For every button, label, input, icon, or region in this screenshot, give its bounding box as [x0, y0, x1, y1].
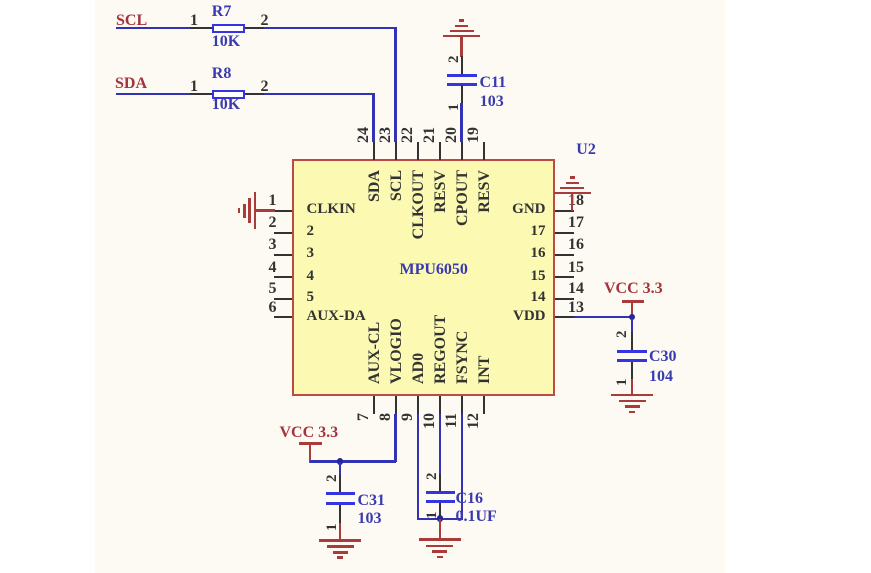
- pin name 17: [531, 224, 546, 239]
- pin number 2 of C31: [325, 475, 340, 483]
- wire SDA to R8 pin 1: [116, 93, 190, 95]
- pin number 6: [268, 300, 277, 316]
- pin 15 stub (right): [555, 276, 574, 278]
- ground below C31: [319, 539, 361, 542]
- pin name CPOUT: [455, 170, 471, 226]
- pin name 16: [531, 246, 546, 261]
- pin name 4: [307, 269, 315, 284]
- pin name VLOGIO: [389, 319, 405, 385]
- pin number 17: [568, 215, 584, 231]
- part name MPU6050: [400, 262, 468, 278]
- resistor R7 pin 2 lead: [245, 27, 264, 29]
- pin 19 stub (top): [483, 142, 485, 160]
- pin name SCL: [389, 170, 405, 201]
- pin 24 stub (top): [373, 142, 375, 160]
- capacitor C16: [426, 491, 455, 494]
- pin number 1 of R8: [190, 79, 198, 95]
- pin 11 stub (bottom): [461, 396, 463, 415]
- pin number 11: [444, 413, 460, 428]
- wire U2 pin 11 down: [461, 414, 463, 520]
- pin number 21: [422, 127, 438, 143]
- designator C16: [456, 491, 484, 507]
- pin 20 stub (top): [461, 142, 463, 160]
- pin number 1 of C16: [425, 512, 440, 520]
- pin name 14: [531, 290, 546, 305]
- capacitor C31: [326, 492, 355, 495]
- pin number 12: [466, 413, 482, 429]
- pin 13 stub (right): [555, 316, 574, 318]
- capacitor C16 pin 2 lead: [439, 474, 441, 492]
- pin name AUX-DA: [307, 309, 366, 324]
- pin number 23: [378, 127, 394, 143]
- wire R7 pin 2 to corner: [264, 27, 397, 29]
- capacitor C11 pin 1 lead: [461, 85, 463, 103]
- designator C31: [358, 493, 386, 509]
- wire C16 junction to ground: [439, 519, 441, 539]
- value 104 of C30: [649, 369, 673, 385]
- pin name AUX-CL: [367, 322, 383, 384]
- wire junction to C31 pin 2: [339, 462, 341, 477]
- pin number 20: [444, 127, 460, 143]
- wire down to U2 pin 24: [372, 93, 374, 142]
- pin 7 stub (bottom): [373, 396, 375, 415]
- pin number 19: [466, 127, 482, 143]
- capacitor C30: [617, 350, 647, 353]
- pin number 1 of C11: [447, 103, 462, 111]
- pin name 2: [307, 224, 315, 239]
- wire SCL to R7 pin 1: [116, 27, 190, 29]
- pin name FSYNC: [455, 331, 471, 384]
- pin name SDA: [367, 170, 383, 202]
- pin number 1 of C31: [325, 524, 340, 532]
- pin 10 stub (bottom): [439, 396, 441, 415]
- value 0.1UF of C16: [456, 509, 497, 525]
- node junction at C30: [629, 314, 636, 321]
- pin number 13: [568, 300, 584, 316]
- wire U2 pin 10 to C16 pin 2: [439, 414, 441, 474]
- pin 5 stub (left): [274, 298, 292, 300]
- pin number 3: [268, 237, 277, 253]
- ground (inverted) at U2 pin 18: [554, 192, 591, 195]
- pin number 2 of C30: [615, 331, 630, 339]
- capacitor C30 pin 2 lead: [631, 332, 633, 350]
- op-amp U2 MPU6050 chip body: [292, 159, 555, 396]
- wire ground to pin 18: [571, 194, 573, 211]
- pin 4 stub (left): [274, 276, 292, 278]
- ground below C16: [419, 538, 461, 541]
- pin 21 stub (top): [439, 142, 441, 160]
- pin 6 stub (left): [274, 316, 292, 318]
- resistor R8 pin 2 lead: [245, 93, 264, 95]
- capacitor C31 pin 1 lead: [339, 505, 341, 523]
- pin number 1 of R7: [190, 13, 198, 29]
- pin name GND: [512, 202, 545, 217]
- pin 3 stub (left): [274, 254, 292, 256]
- wire ground to C11 pin 2: [460, 37, 462, 57]
- resistor R7: [212, 24, 245, 33]
- pin 12 stub (bottom): [483, 396, 485, 415]
- capacitor C11 pin 2 lead: [461, 56, 463, 75]
- resistor R7 pin 1 lead: [190, 27, 213, 29]
- pin number 1: [268, 193, 277, 209]
- pin number 5: [268, 281, 277, 297]
- wire R8 pin 2 to corner: [264, 93, 375, 95]
- resistor R8 pin 1 lead: [190, 93, 213, 95]
- pin 17 stub (right): [555, 232, 574, 234]
- wire bottom node: [417, 518, 463, 520]
- pin name INT: [477, 356, 493, 384]
- wire junction to C30 pin 2: [631, 318, 633, 333]
- wire down to U2 pin 23: [394, 27, 396, 142]
- designator R7: [212, 4, 232, 20]
- pin number 14: [568, 281, 584, 297]
- pin 22 stub (top): [417, 142, 419, 160]
- sheet background: [95, 0, 725, 573]
- wire U2 pin 9 down: [417, 414, 419, 520]
- pin number 2: [268, 215, 277, 231]
- pin name RESV: [477, 170, 493, 213]
- wire VCC to U2 pin 8: [310, 460, 397, 462]
- pin number 22: [400, 127, 416, 143]
- ground below C30: [611, 394, 653, 397]
- node junction at C31: [337, 458, 344, 465]
- pin number 2 of C16: [425, 473, 440, 481]
- wire C11 pin 1 to U2 pin 20: [460, 103, 462, 141]
- pin name AD0: [411, 353, 427, 384]
- capacitor C30 pin 1 lead: [631, 362, 633, 379]
- wire up to pin 8: [394, 414, 396, 462]
- pin name RESV: [433, 170, 449, 213]
- power VCC 3.3 (bottom): [280, 425, 339, 441]
- pin 9 stub (bottom): [417, 396, 419, 415]
- net label SCL: [116, 13, 147, 29]
- value 103 of C11: [480, 94, 504, 110]
- pin 18 stub (right): [555, 210, 574, 212]
- designator C30: [649, 349, 677, 365]
- wire ground to pin 1: [255, 209, 275, 211]
- pin number 18: [568, 193, 584, 209]
- pin 8 stub (bottom): [395, 396, 397, 415]
- pin number 24: [356, 127, 372, 143]
- pin 1 stub (left): [274, 210, 292, 212]
- pin 2 stub (left): [274, 232, 292, 234]
- ground (inverted) above C11: [443, 35, 480, 38]
- pin number 8: [378, 413, 394, 421]
- net label SDA: [115, 76, 147, 92]
- pin number 2 of C11: [447, 55, 462, 63]
- power VCC 3.3 (right): [604, 281, 663, 297]
- pin number 10: [422, 413, 438, 429]
- pin name CLKOUT: [411, 170, 427, 239]
- capacitor C11: [447, 74, 477, 77]
- pin number 2 of R7: [261, 13, 269, 29]
- capacitor C16 pin 1 lead: [439, 503, 441, 518]
- designator R8: [212, 66, 232, 82]
- pin number 2 of R8: [261, 79, 269, 95]
- pin 23 stub (top): [395, 142, 397, 160]
- capacitor C31 pin 2 lead: [339, 475, 341, 493]
- pin number 4: [268, 260, 277, 276]
- node junction at C16: [437, 515, 444, 522]
- pin number 1 of C30: [615, 378, 630, 386]
- pin number 7: [356, 413, 372, 421]
- resistor R8: [212, 90, 245, 99]
- pin name 5: [307, 290, 315, 305]
- ground at U2 pin 1 (rotated left): [254, 192, 257, 229]
- designator C11: [480, 75, 507, 91]
- pin name REGOUT: [433, 315, 449, 384]
- pin number 16: [568, 237, 584, 253]
- wire U2 pin 13 to junction: [574, 316, 633, 318]
- value 10K of R7: [212, 34, 240, 50]
- pin name CLKIN: [307, 202, 356, 217]
- value 103 of C31: [358, 511, 382, 527]
- pin 14 stub (right): [555, 298, 574, 300]
- wire C30 pin 1 to ground: [631, 379, 633, 394]
- pin number 9: [400, 413, 416, 421]
- pin name 3: [307, 246, 315, 261]
- value 10K of R8: [212, 97, 240, 113]
- pin number 15: [568, 260, 584, 276]
- pin name VDD: [513, 309, 546, 324]
- designator U2: [576, 142, 596, 158]
- pin name 15: [531, 269, 546, 284]
- pin 16 stub (right): [555, 254, 574, 256]
- wire C31 pin 1 to ground: [339, 523, 341, 540]
